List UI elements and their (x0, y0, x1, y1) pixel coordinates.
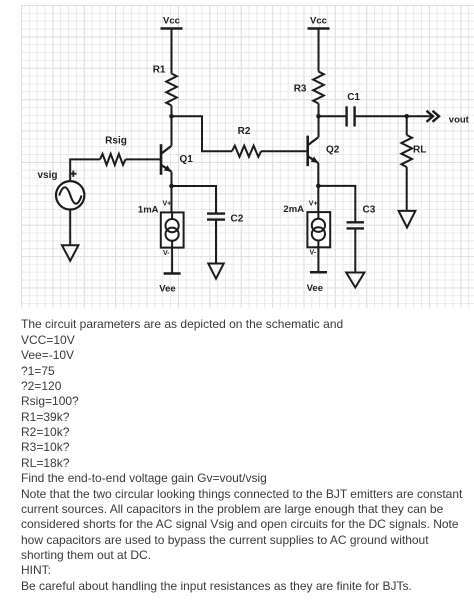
node vout junction (404, 114, 409, 119)
svg-text:R1: R1 (153, 65, 166, 76)
svg-text:vsig: vsig (37, 170, 57, 181)
wire C2 to ground (215, 220, 217, 264)
svg-text:R2: R2 (238, 126, 251, 137)
svg-text:2mA: 2mA (283, 204, 304, 215)
svg-text:Q2: Q2 (326, 145, 340, 156)
ground (C2) (208, 264, 223, 279)
wire I2 to Vee (317, 247, 319, 272)
svg-text:Vee: Vee (159, 284, 175, 295)
power Vcc (left) (161, 16, 183, 29)
svg-text:Rsig: Rsig (105, 136, 127, 147)
svg-text:Vcc: Vcc (310, 16, 327, 27)
resistor RL (401, 135, 426, 167)
transistor Q2 (308, 136, 340, 167)
plus polarity mark (70, 171, 76, 177)
svg-text:Vcc: Vcc (163, 16, 180, 27)
wire vsig to Rsig (70, 159, 100, 181)
wire R2 to Q2 base (261, 150, 308, 152)
wire RL to ground (406, 167, 408, 211)
resistor R2 (232, 126, 261, 157)
wire Vcc to R3 (318, 29, 320, 72)
resistor R3 (294, 72, 324, 104)
current source I2 2mA (283, 201, 330, 257)
wire emitter node to C2 (172, 186, 217, 213)
svg-text:vout: vout (449, 114, 470, 125)
node interstage junction (169, 114, 174, 119)
capacitor C3 (347, 205, 376, 229)
svg-text:V-: V- (310, 250, 317, 257)
svg-text:C2: C2 (231, 214, 244, 225)
power Vcc (right) (308, 16, 330, 29)
current source I1 1mA (138, 201, 184, 258)
wire Rsig to Q1 base (126, 158, 162, 160)
wire C3 to ground (354, 228, 356, 272)
wire R1 to Q1 collector (171, 106, 173, 146)
svg-text:Q1: Q1 (180, 154, 194, 165)
svg-text:RL: RL (413, 145, 426, 156)
wire vsig to ground (69, 210, 71, 246)
ground (RL) (399, 211, 416, 228)
port vout arrow (427, 111, 470, 126)
node Q2 emitter junction (316, 184, 321, 189)
power Vee (left) (159, 274, 180, 295)
wire emitter node to current source I1 (171, 186, 173, 212)
svg-text:C3: C3 (363, 205, 376, 216)
svg-text:R3: R3 (294, 84, 307, 95)
wire Vcc to R1 (171, 29, 173, 74)
wire emitter node to C3 (318, 186, 355, 222)
wire R3 to Q2 collector (318, 104, 320, 138)
svg-text:1mA: 1mA (138, 204, 159, 215)
wire emitter node to current source I2 (317, 186, 319, 212)
svg-text:Vee: Vee (307, 283, 323, 294)
svg-text:V-: V- (163, 250, 170, 257)
node output junction (316, 114, 321, 119)
capacitor C1 (347, 92, 361, 127)
svg-text:V+: V+ (163, 201, 172, 208)
svg-text:C1: C1 (347, 92, 360, 103)
svg-text:V+: V+ (309, 201, 318, 208)
resistor R1 (153, 65, 177, 106)
wire C1 to vout (355, 115, 433, 117)
ground (C3) (346, 273, 364, 288)
resistor Rsig (100, 136, 127, 165)
source vsig (37, 170, 84, 210)
capacitor C2 (207, 214, 244, 225)
power Vee (right) (307, 272, 327, 294)
wire Q2 emitter down (317, 163, 319, 186)
node Q1 emitter junction (169, 184, 174, 189)
ground (vsig) (62, 245, 78, 260)
wire junction to R2 (172, 116, 233, 151)
wire I1 to Vee (171, 248, 173, 274)
wire junction to C1 (319, 115, 347, 117)
wire Q1 emitter down (171, 172, 173, 186)
wire vout node to RL (406, 116, 408, 135)
transistor Q1 (161, 144, 193, 175)
